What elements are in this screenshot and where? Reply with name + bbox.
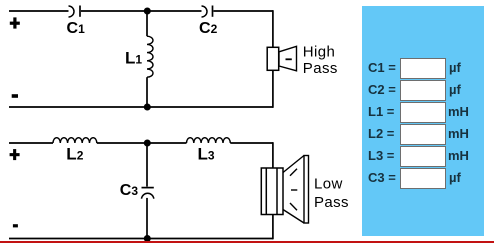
speaker SP1 driver (267, 47, 279, 70)
terminal plus circuit2 (10, 149, 20, 160)
wire top-left circuit1 (9, 10, 69, 12)
terminal minus circuit1 (12, 94, 18, 98)
values panel background (362, 6, 484, 236)
input L2 (400, 124, 446, 145)
wire L2 to L3 (97, 142, 187, 144)
unit mH row3 (448, 105, 469, 118)
wire right vertical upper circuit2 (272, 142, 274, 168)
label Low Pass (314, 176, 349, 211)
capacitor C1 (69, 6, 81, 18)
unit mH row5 (448, 149, 469, 162)
input C1 (400, 58, 446, 79)
red divider line (0, 241, 494, 244)
node dot top of C3 (144, 140, 151, 147)
panel label C1 (368, 61, 396, 74)
svg-text:Low: Low (314, 176, 343, 193)
svg-text:Pass: Pass (314, 194, 349, 211)
terminal plus circuit1 (10, 17, 20, 28)
wire right vertical lower circuit1 (272, 70, 274, 108)
node dot top of L1 (144, 8, 151, 15)
panel label L1 (368, 105, 394, 118)
svg-text:L2: L2 (66, 145, 83, 164)
wire right vertical lower circuit2 (272, 215, 274, 240)
panel label L3 (368, 149, 394, 162)
label High Pass (303, 43, 338, 77)
svg-text:C3: C3 (120, 182, 139, 199)
wire bottom circuit2 (9, 238, 273, 240)
node dot bottom of C3 (144, 235, 151, 242)
unit uf row6 (449, 171, 461, 184)
speaker SP1 minus mark (286, 58, 292, 60)
node dot bottom of L1 (144, 104, 151, 111)
wire right vertical upper circuit1 (272, 10, 274, 47)
svg-text:Pass: Pass (303, 60, 338, 77)
panel label C3 (368, 171, 396, 184)
wire C1 to C2 (81, 10, 202, 12)
capacitor C2 (202, 6, 213, 18)
unit uf row2 (449, 83, 461, 96)
svg-text:C2: C2 (199, 20, 218, 37)
wire C2 to corner (214, 10, 274, 12)
inductor L2 (53, 138, 97, 143)
input L1 (400, 102, 446, 123)
panel label L2 (368, 127, 394, 140)
speaker SP2 driver (261, 168, 283, 215)
unit uf row1 (449, 61, 461, 74)
inductor L3 (187, 138, 231, 143)
speaker SP1 cone (279, 46, 297, 71)
terminal minus circuit2 (13, 224, 18, 227)
capacitor C3 (142, 143, 154, 239)
speaker SP2 cone (283, 156, 309, 224)
svg-text:C1: C1 (67, 20, 86, 37)
unit mH row4 (448, 127, 469, 140)
input L3 (400, 146, 446, 167)
wire L3 to corner (230, 142, 273, 144)
input C3 (400, 168, 446, 189)
svg-text:L1: L1 (125, 49, 142, 68)
panel label C2 (368, 83, 396, 96)
input C2 (400, 80, 446, 101)
svg-text:L3: L3 (198, 145, 215, 164)
wire top-left circuit2 (9, 142, 53, 144)
inductor L1 (147, 11, 153, 107)
speaker SP2 sound marks (290, 169, 297, 210)
svg-text:High: High (303, 43, 335, 60)
wire bottom circuit1 (9, 106, 273, 108)
